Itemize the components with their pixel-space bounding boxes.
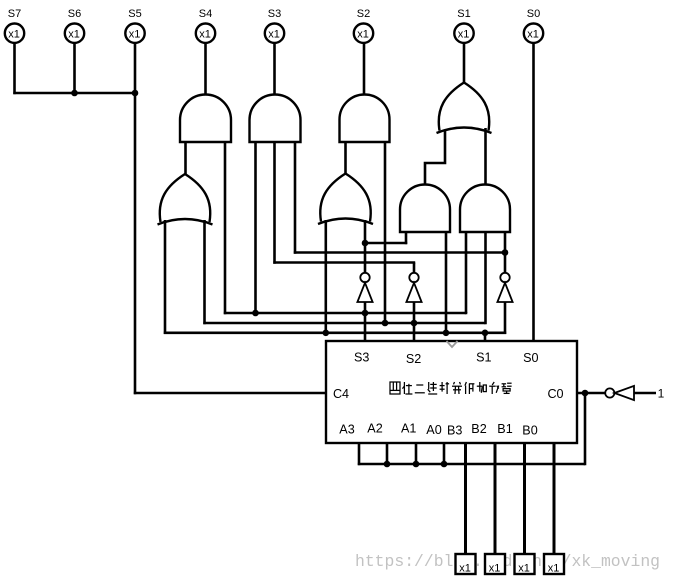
inverter V4 bubble bbox=[605, 388, 614, 397]
svg-text:x1: x1 bbox=[68, 29, 80, 41]
wire U5 right input down bbox=[203, 220, 206, 324]
adder pin label S3 bbox=[354, 351, 369, 365]
svg-text:S1: S1 bbox=[457, 8, 470, 20]
or gate U6 bbox=[318, 174, 373, 225]
wire S1 output stub bbox=[463, 43, 466, 84]
svg-text:x1: x1 bbox=[8, 29, 20, 41]
wire U6 left input down bbox=[324, 220, 327, 333]
node junction inverter V1 output bbox=[362, 240, 369, 247]
output pin S5 x1 circle bbox=[125, 24, 144, 43]
wire U1 right input down bbox=[224, 142, 227, 314]
inverter V2 bbox=[406, 273, 421, 302]
bus wire A-net y464 bbox=[358, 463, 585, 466]
node junction U7 right input bbox=[443, 330, 450, 337]
bus wire S1-net y333 bbox=[164, 331, 506, 334]
bus wire S2-net y323 bbox=[203, 322, 485, 325]
svg-text:S5: S5 bbox=[128, 8, 141, 20]
input pin x1 #1 bbox=[456, 554, 476, 575]
adder pin label A3 bbox=[339, 423, 354, 437]
output pin S2 label bbox=[357, 8, 370, 20]
svg-text:B2: B2 bbox=[471, 422, 486, 436]
wire S0 vertical to adder bbox=[532, 43, 535, 341]
adder box U9 bbox=[326, 341, 577, 443]
svg-text:x1: x1 bbox=[357, 29, 369, 41]
wire adder B1 pin down to input bbox=[523, 443, 526, 555]
output pin S5 label bbox=[128, 8, 141, 20]
node junction adder S1 pin bbox=[482, 330, 489, 337]
wire V3 input down bbox=[504, 302, 507, 334]
svg-text:x1: x1 bbox=[199, 29, 211, 41]
node junction V2 input bbox=[411, 320, 418, 327]
svg-text:1: 1 bbox=[658, 387, 665, 401]
output pin S3 x1 circle bbox=[265, 24, 284, 43]
svg-text:S0: S0 bbox=[527, 8, 540, 20]
wire U3 right input down bbox=[384, 142, 387, 323]
wire U5 left input down bbox=[164, 220, 167, 334]
and gate U2 (S3) 3-input bbox=[250, 95, 301, 142]
wire U4 left input jog bbox=[425, 130, 445, 185]
and gate U7 bbox=[400, 185, 450, 233]
output pin S6 x1 circle bbox=[65, 24, 84, 43]
adder pin label B0 bbox=[522, 424, 537, 438]
inverter V3 bbox=[497, 273, 512, 302]
wire U5 output to U1 left input bbox=[184, 142, 187, 175]
wire adder B2 pin down to input bbox=[494, 443, 497, 555]
svg-text:x1: x1 bbox=[548, 563, 560, 575]
wire U8 mid input down bbox=[484, 232, 487, 324]
wire S7-S6-S5 horizontal bbox=[13, 92, 136, 95]
output pin S4 label bbox=[199, 8, 212, 20]
wire inverter V2 output up bbox=[413, 263, 416, 274]
svg-text:B0: B0 bbox=[522, 424, 537, 438]
svg-text:x1: x1 bbox=[129, 29, 141, 41]
svg-text:A1: A1 bbox=[401, 422, 416, 436]
svg-text:A3: A3 bbox=[339, 423, 354, 437]
adder pin label B2 bbox=[471, 422, 486, 436]
wire C0 pin to inverter bbox=[577, 392, 605, 395]
wire A-bus up to C0 node bbox=[584, 393, 587, 465]
wire S5 vertical to C4 row bbox=[134, 43, 137, 394]
svg-text:B3: B3 bbox=[447, 424, 462, 438]
adder pin label A1 bbox=[401, 422, 416, 436]
wire inverter V3 output up segment bbox=[504, 253, 507, 274]
svg-text:S3: S3 bbox=[268, 8, 281, 20]
node junction V1 input bbox=[362, 310, 369, 317]
wire U7 left input down bbox=[405, 232, 408, 244]
watermark chevron bbox=[447, 341, 458, 347]
svg-text:S3: S3 bbox=[354, 351, 369, 365]
svg-text:S1: S1 bbox=[476, 351, 491, 365]
wire adder A3 pin down bbox=[358, 443, 361, 465]
wire U2 right horizontal to node bbox=[294, 251, 505, 254]
node junction A1 bbox=[413, 461, 420, 468]
svg-text:S0: S0 bbox=[523, 351, 538, 365]
wire U8 left input corner bbox=[465, 312, 468, 313]
inverter V1 bbox=[357, 273, 372, 302]
node junction A0 bbox=[441, 461, 448, 468]
node junction U6 left input bbox=[323, 330, 330, 337]
wire C4 horizontal to adder bbox=[134, 392, 326, 395]
wire U2 mid input down bbox=[273, 142, 276, 264]
wire S4 output stub bbox=[204, 43, 207, 96]
adder title 四位二进制并行加法器 bbox=[390, 382, 512, 394]
svg-text:S4: S4 bbox=[199, 8, 212, 20]
or gate U5 bbox=[158, 174, 213, 225]
bus wire S3-net y313 bbox=[224, 312, 466, 315]
wire inverter V1 output node wire bbox=[365, 242, 407, 245]
or gate U4 (S1) bbox=[437, 83, 492, 134]
svg-text:x1: x1 bbox=[489, 563, 501, 575]
and gate U1 (S4) bbox=[180, 95, 231, 142]
adder pin label S0 bbox=[523, 351, 538, 365]
output pin S6 label bbox=[68, 8, 81, 20]
output pin S7 label bbox=[8, 8, 21, 20]
wire S2 output stub bbox=[363, 43, 366, 96]
wire U7 right input down bbox=[445, 232, 448, 333]
wire V2 input / adder S2 pin bbox=[413, 302, 416, 341]
wire adder B3 pin down to input bbox=[464, 443, 467, 555]
wire constant 1 to inverter bbox=[634, 392, 656, 395]
label constant 1 bbox=[658, 387, 665, 401]
wire adder A2 pin down bbox=[386, 443, 389, 464]
output pin S0 x1 circle bbox=[524, 24, 543, 43]
wire S3 output stub bbox=[273, 43, 276, 96]
wire inverter V1 output up segment bbox=[364, 243, 367, 273]
svg-text:x1: x1 bbox=[518, 563, 530, 575]
watermark text bbox=[355, 552, 660, 571]
node junction U2 left input bbox=[252, 310, 259, 317]
output pin S7 x1 circle bbox=[5, 24, 24, 43]
adder pin label C0 bbox=[547, 387, 563, 401]
svg-text:A0: A0 bbox=[426, 423, 441, 437]
wire U6 right input down bbox=[364, 220, 367, 243]
wire U2 mid horizontal to inverter V2 bbox=[273, 261, 415, 264]
adder pin label B1 bbox=[497, 422, 512, 436]
wire adder S1 pin stub bbox=[484, 333, 487, 341]
output pin S3 label bbox=[268, 8, 281, 20]
wire U8 right input down bbox=[504, 232, 507, 253]
svg-text:x1: x1 bbox=[459, 563, 471, 575]
node junction A2 bbox=[384, 461, 391, 468]
svg-text:x1: x1 bbox=[527, 29, 539, 41]
adder pin label A0 bbox=[426, 423, 441, 437]
adder pin label A2 bbox=[367, 422, 382, 436]
wire U2 right input down bbox=[294, 142, 297, 254]
and gate U8 bbox=[460, 185, 510, 233]
wire U8 left input down bbox=[465, 232, 468, 314]
node junction U3 right input bbox=[382, 320, 389, 327]
svg-text:C0: C0 bbox=[547, 387, 563, 401]
wire U6 output to U3 left input bbox=[344, 142, 347, 175]
wire U4 right input to U8 output bbox=[484, 128, 487, 185]
wire V1 input / adder S3 pin bbox=[364, 302, 367, 341]
output pin S1 x1 circle bbox=[454, 24, 473, 43]
svg-text:S6: S6 bbox=[68, 8, 81, 20]
node junction S5 wire bbox=[132, 90, 139, 97]
adder pin label C4 bbox=[333, 387, 349, 401]
output pin S0 label bbox=[527, 8, 540, 20]
svg-text:S7: S7 bbox=[8, 8, 21, 20]
svg-text:A2: A2 bbox=[367, 422, 382, 436]
adder pin label S1 bbox=[476, 351, 491, 365]
node junction inverter V3 output bbox=[502, 249, 509, 256]
output pin S1 label bbox=[457, 8, 470, 20]
svg-text:https://blog.csdn.net/xk_movin: https://blog.csdn.net/xk_moving bbox=[355, 552, 660, 571]
wire S7 stub down bbox=[13, 43, 16, 94]
svg-text:x1: x1 bbox=[268, 29, 280, 41]
output pin S2 x1 circle bbox=[354, 24, 373, 43]
wire adder B0 pin down to input bbox=[553, 443, 556, 555]
wire S6 stub down bbox=[73, 43, 76, 94]
svg-text:B1: B1 bbox=[497, 422, 512, 436]
wire U2 left input down bbox=[254, 142, 257, 313]
wire adder A1 pin down bbox=[415, 443, 418, 464]
input pin x1 #3 bbox=[515, 554, 535, 575]
adder pin label S2 bbox=[406, 352, 421, 366]
svg-text:S2: S2 bbox=[357, 8, 370, 20]
svg-text:C4: C4 bbox=[333, 387, 349, 401]
wire adder A0 pin down bbox=[443, 443, 446, 464]
and gate U3 (S2) bbox=[340, 94, 390, 142]
inverter V4 triangle bbox=[614, 386, 634, 400]
input pin x1 #2 bbox=[485, 554, 505, 575]
adder pin label B3 bbox=[447, 424, 462, 438]
svg-text:S2: S2 bbox=[406, 352, 421, 366]
svg-text:x1: x1 bbox=[458, 29, 470, 41]
node junction C0 bbox=[582, 390, 589, 397]
input pin x1 #4 bbox=[544, 554, 564, 575]
node junction S6 wire bbox=[71, 90, 78, 97]
output pin S4 x1 circle bbox=[196, 24, 215, 43]
